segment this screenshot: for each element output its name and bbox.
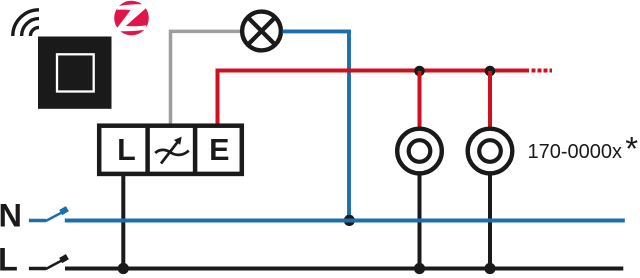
wireless signal icon [13,10,39,36]
N line: left stub [29,219,46,223]
svg-text:L: L [0,242,18,278]
svg-text:170-0000x: 170-0000x [528,141,623,163]
wire: blue from lamp to N line [283,31,350,220]
wire: black drop luminaire 1 to L line [418,173,422,269]
L line: main run [65,267,623,271]
svg-text:N: N [0,197,22,233]
wire: red drop to luminaire 1 [418,71,422,129]
N line: main run [65,219,625,223]
junction dot on red bus 2 [485,66,496,77]
wire: red from terminal E up to distribution bus [218,71,530,126]
junction dot: luminaire 2 on L line [484,263,495,274]
wire: gray from actuator output terminal to lamp [171,31,241,125]
red bus dashed continuation [532,69,553,73]
luminaire outlet 2 [468,129,513,174]
wire: black from terminal L down to L line [121,176,125,269]
Zigbee logo [114,1,150,36]
svg-text:L: L [117,133,136,167]
lamp [242,12,281,51]
L line: switch blade [46,261,62,269]
terminal switched-output symbol (arrow through curve) [155,137,189,164]
L line: left stub [29,267,46,271]
junction dot on red bus 1 [414,66,425,77]
N line: switch blade flag [61,209,68,213]
terminal block [99,124,242,177]
wire: black drop luminaire 2 to L line [488,173,492,269]
junction dot: blue wire on N line [344,215,355,226]
L line: switch blade flag [61,257,68,261]
luminaire outlet 1 [397,129,442,174]
flush-mounted wireless switch device [38,37,112,109]
N line: switch blade [46,213,62,221]
junction dot: luminaire 1 on L line [414,263,425,274]
wire: red drop to luminaire 2 [488,71,492,129]
svg-text:*: * [625,130,638,167]
junction dot: terminal L wire on L line [118,263,129,274]
svg-text:E: E [209,133,229,167]
